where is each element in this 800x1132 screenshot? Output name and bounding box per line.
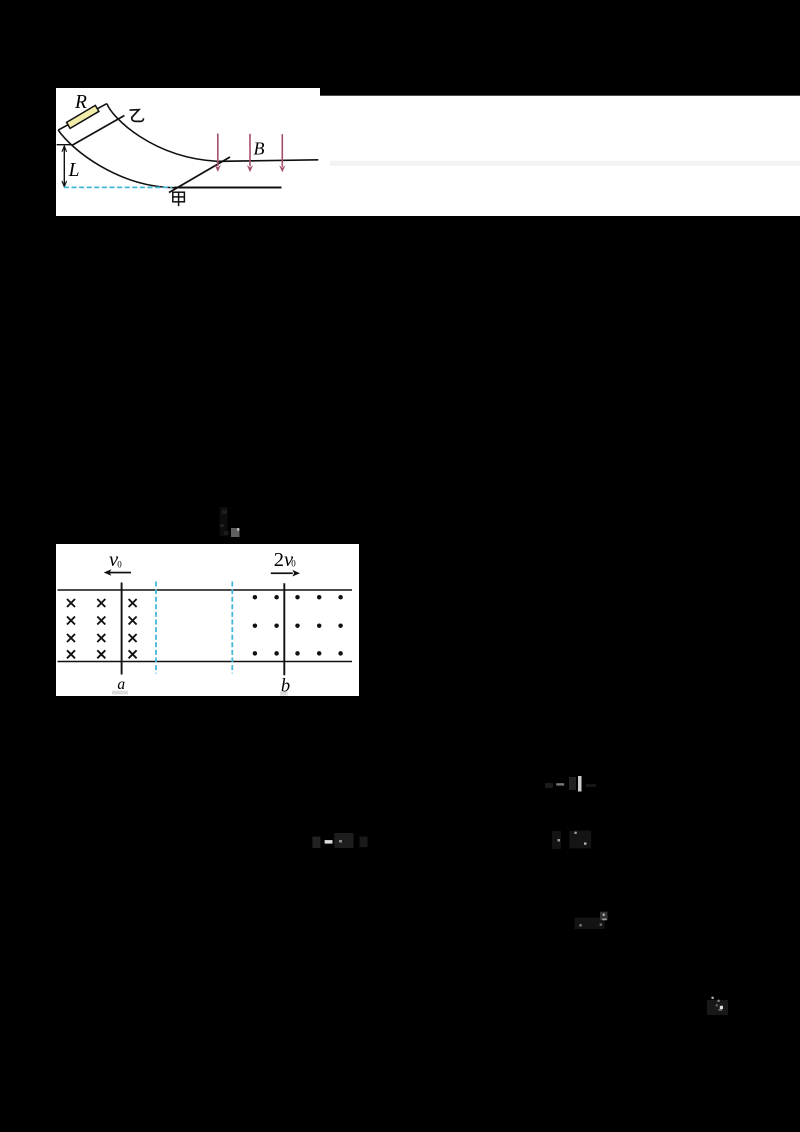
faint text fragment 3 — [552, 831, 591, 850]
smudge under label b — [280, 692, 288, 696]
bottom rail of track — [58, 661, 353, 663]
wire upper horizontal rail — [216, 160, 318, 162]
svg-text:b: b — [281, 676, 290, 696]
L dimension tick — [57, 144, 72, 146]
resistor R — [67, 105, 99, 128]
boundary dashed line left — [155, 582, 157, 674]
faint ghost of field line right of figure 1 — [330, 161, 800, 166]
figure 2 white background — [56, 544, 359, 696]
rod a — [121, 583, 123, 675]
top rail of track — [58, 589, 353, 591]
faint text fragment 1 — [545, 776, 596, 792]
ghost mark above figure 2 — [220, 507, 240, 537]
svg-text:R: R — [74, 92, 87, 113]
velocity arrow 2v0 — [271, 570, 300, 577]
faint text fragment 2 — [312, 833, 367, 848]
svg-text:a: a — [117, 676, 125, 693]
smudge under label a — [112, 691, 128, 695]
faint text fragment 4 — [575, 912, 608, 929]
rod b — [283, 583, 285, 675]
rod 乙 on the incline — [72, 116, 125, 146]
magnetic field arrow B3 — [279, 134, 285, 172]
field into page crosses — [67, 599, 137, 658]
velocity arrow v0 — [104, 569, 131, 576]
svg-text:B: B — [254, 139, 265, 159]
magnetic field arrow B2 — [247, 134, 253, 172]
dashed reference line — [64, 186, 172, 188]
lower horizontal ground line — [175, 187, 282, 189]
faint text fragment 5 — [707, 997, 728, 1015]
svg-text:0: 0 — [291, 559, 296, 569]
magnetic field arrow B1 — [215, 134, 221, 173]
svg-text:0: 0 — [117, 559, 122, 569]
svg-text:L: L — [68, 160, 80, 181]
rail upper curve — [107, 104, 217, 162]
rail lower curve — [58, 130, 175, 188]
field out of page dots — [253, 595, 343, 656]
label 甲 — [173, 192, 185, 206]
wire connecting rails through resistor — [58, 104, 107, 131]
figure 1 white background — [56, 88, 800, 216]
L dimension arrow — [62, 146, 67, 187]
boundary dashed line right — [231, 582, 233, 674]
label 乙 — [130, 110, 144, 122]
ground edge diagonal — [169, 157, 230, 193]
